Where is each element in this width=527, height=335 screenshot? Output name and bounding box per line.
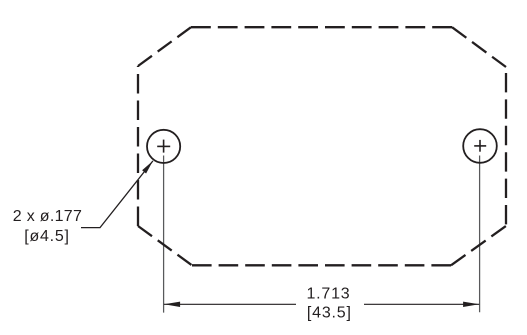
svg-text:2 x ø.177: 2 x ø.177 [13,208,82,225]
svg-text:1.713: 1.713 [306,286,350,303]
svg-text:[ø4.5]: [ø4.5] [24,228,69,245]
svg-text:[43.5]: [43.5] [307,304,352,321]
